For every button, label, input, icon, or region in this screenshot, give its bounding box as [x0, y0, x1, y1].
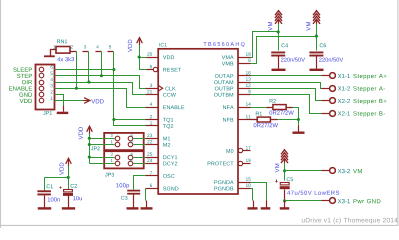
- ground below C5: [280, 207, 290, 209]
- junction JP2 row2: [88, 143, 91, 146]
- IC1 CLK wedge: [158, 85, 163, 91]
- junction C5 X3-1: [283, 199, 286, 202]
- capacitor C3: [116, 183, 140, 207]
- wire VDD arrow stem: [68, 166, 70, 190]
- connector X1-2: [322, 86, 350, 92]
- wire VM2 down to C6: [316, 24, 318, 51]
- supply VDD top: [128, 38, 142, 52]
- wire JP2 row2: [90, 144, 115, 146]
- wire PGNDA to ground: [251, 183, 267, 201]
- RN1 pin 1 lead to GND bar: [44, 50, 57, 58]
- junction VDD caps: [67, 176, 70, 179]
- wire SGND to ground: [145, 189, 147, 201]
- supply VM 1: [268, 11, 282, 31]
- connector X2-2: [322, 98, 350, 104]
- wire JP3 row2: [90, 163, 115, 165]
- capacitor C1: [37, 178, 60, 208]
- wire JP3 row1: [90, 157, 115, 159]
- junction TQ1/RN5: [112, 118, 115, 121]
- IC1 left pin names: [163, 55, 185, 190]
- wire SLEEP: [55, 69, 114, 71]
- wire X3-2: [285, 170, 322, 172]
- wire OSC to C3: [134, 176, 146, 190]
- wire OUTBM to X2-1: [251, 95, 322, 114]
- wire VDD vertical to RESET: [140, 45, 147, 70]
- wire NFA to R2: [251, 107, 267, 109]
- ground below C4: [272, 69, 286, 71]
- RN1 pin numbers: [53, 45, 111, 48]
- wire RN1 pin4 to STEP net: [101, 52, 103, 76]
- junction JP2 row1: [88, 137, 91, 140]
- net label Stepper A-: [353, 86, 385, 91]
- resistor network RN1: [56, 39, 74, 61]
- wire X3-1: [285, 200, 322, 202]
- capacitor C5 polarized: [276, 177, 340, 200]
- wire JP3 to DCY1: [134, 157, 146, 159]
- supply VDD mid: [79, 126, 93, 139]
- net label Stepper A+: [353, 74, 386, 79]
- JP3 label: [105, 173, 114, 177]
- IC1 PROTECT bubble: [238, 161, 242, 165]
- junction DIR/RN3: [87, 80, 90, 83]
- wire C5 to ground: [284, 201, 286, 208]
- wire OUTBP to X2-2: [251, 89, 322, 101]
- net label Stepper B-: [353, 111, 385, 116]
- ground below SGND: [141, 207, 153, 209]
- junction VM2: [315, 35, 318, 38]
- wire JP2 row1: [90, 138, 115, 140]
- junction VM X3-2: [283, 169, 286, 172]
- wire sense node to ground: [298, 120, 300, 126]
- jumper JP2: [104, 133, 144, 150]
- wire PGNDB to ground: [251, 189, 253, 201]
- supply VDD bottom left: [59, 158, 71, 175]
- wire RN1 pin2 to ENABLE net: [76, 52, 78, 89]
- wire VMA to VM rail: [251, 32, 279, 58]
- JP1 label: [43, 111, 52, 115]
- junction VM1: [277, 30, 280, 33]
- capacitor C2 polarized: [60, 184, 82, 208]
- junction SLEEP/RN5: [112, 68, 115, 71]
- IC1 RESET bubble: [153, 67, 157, 71]
- JP1 pin numbers: [50, 65, 52, 99]
- junction sense node: [297, 118, 300, 121]
- IC1 right pin numbers: [246, 52, 251, 187]
- supply arrow VDD right: [83, 98, 103, 104]
- IC1 M0 bubble: [238, 148, 242, 152]
- wire RN1 pin5 to SLEEP/TQ nets: [114, 52, 146, 126]
- ground below R1 R2: [293, 132, 305, 134]
- wire OUTAM to X1-2: [251, 83, 322, 89]
- junction JP3 row1: [88, 155, 91, 158]
- wire VM1 down to C4: [278, 24, 280, 51]
- ground below C1: [38, 207, 52, 209]
- wire TQ1 tap: [114, 119, 146, 121]
- supply VM 2: [306, 11, 320, 31]
- junction VDD pin20: [138, 55, 141, 58]
- wire JP2 to M2: [134, 144, 146, 146]
- wire R2 to sense node: [293, 108, 299, 120]
- ground PGNDA: [261, 207, 271, 209]
- wire VDD row: [55, 100, 84, 102]
- capacitor C6: [309, 43, 343, 68]
- connector X3-2: [322, 168, 350, 174]
- resistor R1: [251, 112, 278, 128]
- wire STEP to CLK: [55, 76, 146, 89]
- wire VDD to pin 20: [140, 57, 147, 59]
- JP3 pin numbers: [111, 153, 133, 162]
- connector JP1: [36, 65, 55, 110]
- wire OUTAP to X1-1: [251, 75, 322, 77]
- wire ENABLE: [55, 89, 146, 108]
- RN1 pin stubs: [71, 51, 114, 53]
- wire VDD to jumpers: [89, 134, 91, 164]
- title text: [302, 218, 398, 224]
- capacitor C4: [271, 43, 305, 68]
- IC1 left pin numbers: [147, 52, 152, 187]
- resistor R2: [267, 99, 294, 115]
- net label Pwr GND: [353, 199, 380, 203]
- wire VM to X3-2 node: [284, 163, 286, 181]
- connector X3-1: [322, 198, 350, 204]
- wire JP2 to M1: [134, 138, 146, 140]
- wire JP3 to DCY2: [134, 163, 146, 165]
- ground below C3: [127, 207, 139, 209]
- ground below JP1: [63, 106, 65, 112]
- net labels SLEEP STEP DIR ENABLE GND VDD: [9, 68, 32, 103]
- wire R1 to sense node: [278, 119, 299, 121]
- IC1 right pin names: [208, 55, 234, 190]
- ground below C6: [310, 69, 324, 71]
- wire RN1 pin3 to DIR net: [88, 52, 90, 83]
- connector X2-1: [322, 111, 350, 117]
- junction ENABLE/RN2: [75, 87, 78, 90]
- op-amp U1 body IC1 TB6560AHQ: [158, 42, 244, 194]
- wire VDD to C1 C2: [45, 177, 69, 179]
- ground PGNDB: [248, 207, 258, 209]
- connector X1-1: [322, 73, 350, 79]
- wire DIR to CCW: [55, 83, 146, 95]
- wire GND to ground: [55, 95, 64, 106]
- IC1 right pin stubs: [239, 58, 251, 189]
- net label Stepper B+: [353, 99, 386, 104]
- junction STEP/RN4: [100, 74, 103, 77]
- supply VM bottom: [275, 150, 288, 173]
- IC1 left pin stubs: [146, 58, 159, 189]
- JP2 label: [91, 146, 100, 150]
- net label VM: [353, 169, 362, 173]
- JP2 pin numbers: [111, 134, 133, 143]
- wire VMB to VM rail: [251, 37, 317, 64]
- jumper JP3: [104, 151, 144, 168]
- ground below C2: [62, 207, 75, 209]
